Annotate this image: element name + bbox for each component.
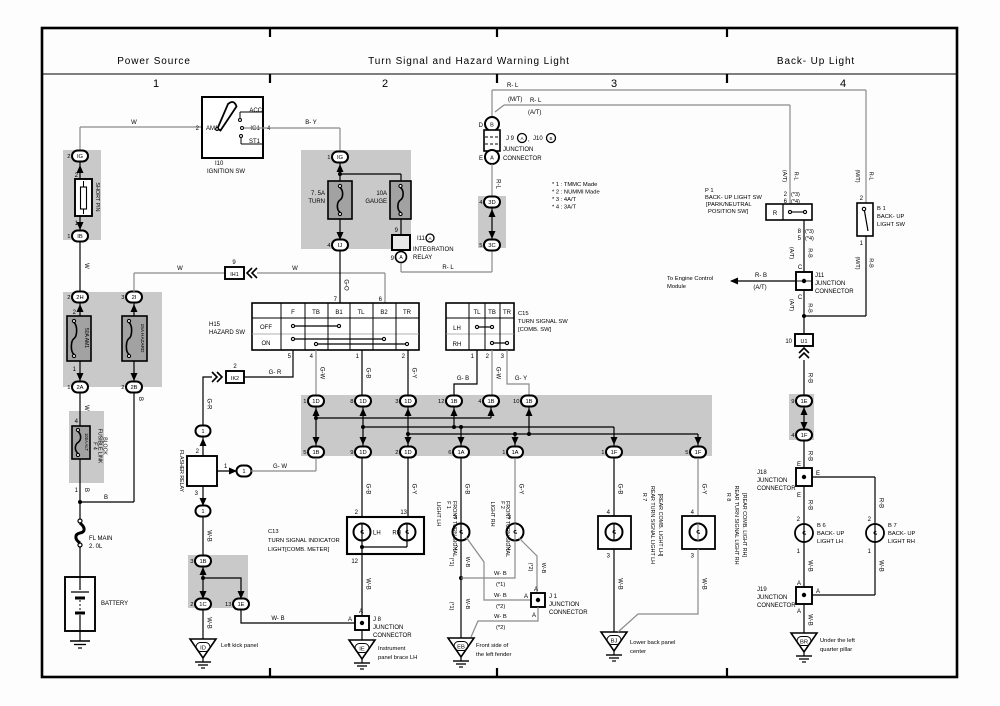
svg-text:[PARK/NEUTRAL: [PARK/NEUTRAL [706,202,752,208]
svg-text:B 6: B 6 [817,523,826,529]
svg-text:R-B: R-B [807,500,813,510]
svg-text:ID: ID [200,646,206,652]
svg-text:* 4 : 3A/T: * 4 : 3A/T [552,205,577,211]
svg-text:* 2 : NUMMI Made: * 2 : NUMMI Made [552,190,600,196]
svg-text:Back- Up Light: Back- Up Light [777,56,855,67]
svg-text:TURN SIGNAL SW: TURN SIGNAL SW [518,319,568,325]
svg-text:IB: IB [77,234,83,240]
svg-text:IG1: IG1 [250,126,260,132]
svg-text:R-L: R-L [495,179,501,189]
svg-text:RH: RH [392,531,401,537]
svg-text:1F: 1F [695,450,702,456]
svg-text:quarter pillar: quarter pillar [820,647,852,653]
svg-text:J10: J10 [533,136,543,142]
svg-text:R 7: R 7 [641,493,647,501]
svg-text:FL MAIN: FL MAIN [89,536,112,542]
svg-text:A: A [359,609,363,615]
svg-text:FLASHER RELAY: FLASHER RELAY [178,450,184,493]
svg-text:G-B: G-B [464,484,470,495]
svg-text:2. 0L: 2. 0L [89,544,103,550]
svg-text:12: 12 [438,399,444,405]
svg-text:(A/T): (A/T) [753,285,766,291]
svg-text:REAR TURN SIGNAL LIGHT LH: REAR TURN SIGNAL LIGHT LH [649,486,655,564]
svg-text:3: 3 [121,295,124,301]
svg-text:E: E [797,493,801,499]
svg-text:J18: J18 [757,470,767,476]
svg-text:(A/T): (A/T) [788,247,794,259]
svg-text:(*1): (*1) [448,558,454,567]
svg-text:(A/T): (A/T) [788,299,794,311]
svg-text:5: 5 [303,450,306,456]
svg-text:JUNCTION: JUNCTION [549,602,579,608]
svg-text:R-L: R-L [793,172,799,181]
svg-text:(A/T): (A/T) [781,170,787,182]
svg-text:W- B: W- B [494,571,507,577]
svg-text:13: 13 [225,602,231,608]
svg-text:100A ALT: 100A ALT [84,433,89,451]
svg-text:(*2): (*2) [527,563,533,572]
svg-text:IG: IG [77,154,84,160]
svg-text:2H: 2H [76,295,83,301]
svg-text:7. 5A: 7. 5A [311,191,325,197]
svg-text:(*3): (*3) [791,192,800,198]
svg-text:W-B: W-B [365,578,371,590]
svg-text:9: 9 [350,450,353,456]
svg-text:TR: TR [503,310,512,316]
svg-text:BACK- UP LIGHT SW: BACK- UP LIGHT SW [705,195,762,201]
svg-text:1D: 1D [359,450,366,456]
svg-text:BJ: BJ [611,639,618,645]
svg-text:13: 13 [400,510,407,516]
svg-text:A: A [524,594,528,600]
svg-text:G-Y: G-Y [701,484,707,495]
svg-text:(*2): (*2) [496,625,505,631]
svg-text:W: W [131,120,137,126]
svg-text:B: B [137,397,143,401]
svg-text:2: 2 [67,154,70,160]
svg-text:J 9: J 9 [506,136,515,142]
svg-text:POSITION SW]: POSITION SW] [708,209,749,215]
svg-text:1B: 1B [487,399,494,405]
svg-text:TR: TR [403,310,412,316]
svg-text:5: 5 [479,243,482,249]
svg-text:Module: Module [667,284,686,290]
svg-text:CONNECTOR: CONNECTOR [503,156,542,162]
svg-text:INTEGRATION: INTEGRATION [413,247,454,253]
svg-text:RH: RH [453,342,462,348]
svg-text:2B: 2B [130,385,137,391]
svg-text:10: 10 [785,339,792,345]
svg-text:1D: 1D [359,399,366,405]
svg-text:3D: 3D [488,200,495,206]
svg-text:B: B [549,136,552,141]
svg-text:10: 10 [513,399,519,405]
svg-text:2: 2 [190,602,193,608]
svg-text:IJ: IJ [338,243,343,249]
svg-text:B2: B2 [380,310,388,316]
svg-text:12: 12 [351,559,358,565]
svg-text:R-B: R-B [807,303,813,313]
svg-text:1: 1 [502,450,505,456]
svg-text:TL: TL [473,310,481,316]
svg-text:R-L: R-L [868,172,874,181]
svg-text:panel brace LH: panel brace LH [378,655,417,661]
svg-text:R-B: R-B [868,258,874,268]
svg-text:R-B: R-B [807,373,813,383]
svg-text:R-B: R-B [878,498,884,508]
svg-text:G- Y: G- Y [515,376,527,382]
svg-text:G-O: G-O [343,279,349,291]
svg-text:LIGHT SW: LIGHT SW [877,222,905,228]
svg-text:1F: 1F [611,450,618,456]
svg-text:LIGHT RH: LIGHT RH [489,501,495,526]
svg-text:1D: 1D [404,450,411,456]
svg-text:2: 2 [382,78,388,90]
svg-text:B1: B1 [335,310,343,316]
svg-text:(M/T): (M/T) [854,256,860,269]
svg-text:1: 1 [303,399,306,405]
svg-text:(*1): (*1) [496,582,505,588]
svg-text:BACK- UP: BACK- UP [888,531,916,537]
svg-text:G- W: G- W [273,464,287,470]
svg-text:15A HAZARD: 15A HAZARD [140,324,145,353]
svg-text:R- L: R- L [442,265,454,271]
svg-text:Turn Signal and Hazard Warning: Turn Signal and Hazard Warning Light [368,56,570,67]
svg-text:2A: 2A [76,385,83,391]
svg-text:3: 3 [395,399,398,405]
svg-text:BATTERY: BATTERY [101,601,128,607]
svg-text:W-B: W-B [617,578,623,590]
svg-text:W-B: W-B [701,578,707,590]
svg-text:IGNITION SW: IGNITION SW [207,169,245,175]
svg-text:W: W [177,266,183,272]
svg-text:Left kick panel: Left kick panel [221,643,258,649]
svg-text:1A: 1A [511,450,518,456]
svg-text:1: 1 [601,450,604,456]
svg-text:A: A [490,156,494,162]
svg-text:J 1: J 1 [549,594,558,600]
svg-text:G-Y: G-Y [411,368,417,379]
svg-text:CONNECTOR: CONNECTOR [373,633,412,639]
svg-text:IK2: IK2 [231,376,239,382]
svg-text:ON: ON [262,341,271,347]
svg-text:LIGHT RH: LIGHT RH [888,539,915,545]
svg-text:JUNCTION: JUNCTION [815,281,845,287]
svg-text:REAR TURN SIGNAL LIGHT RH: REAR TURN SIGNAL LIGHT RH [733,486,739,565]
svg-text:1A: 1A [457,450,464,456]
svg-text:1: 1 [153,78,159,90]
svg-text:(M/T): (M/T) [508,97,522,103]
svg-text:I11: I11 [417,236,426,242]
svg-text:G- B: G- B [457,376,469,382]
svg-text:W-B: W-B [464,557,470,568]
svg-text:R- L: R- L [507,83,519,89]
svg-text:SHORT PIN: SHORT PIN [94,182,100,211]
svg-text:6: 6 [448,450,451,456]
svg-text:* 1 : TMMC Made: * 1 : TMMC Made [552,182,597,188]
svg-text:1: 1 [67,234,70,240]
svg-text:10A: 10A [376,191,387,197]
svg-text:LIGHT[COMB. METER]: LIGHT[COMB. METER] [268,547,330,553]
svg-text:IG: IG [337,155,344,161]
svg-text:JUNCTION: JUNCTION [757,595,787,601]
svg-text:W- B: W- B [494,614,507,620]
svg-text:A: A [816,589,820,595]
svg-text:(*3): (*3) [805,229,814,235]
svg-text:* 3 : 4A/T: * 3 : 4A/T [552,197,577,203]
svg-text:5: 5 [685,450,688,456]
svg-text:2I: 2I [132,295,137,301]
svg-text:E: E [816,471,820,477]
svg-text:1: 1 [201,429,204,435]
svg-text:OFF: OFF [260,325,272,331]
svg-text:E: E [479,156,483,162]
svg-text:TURN: TURN [308,199,325,205]
svg-text:W-B: W-B [878,560,884,572]
svg-text:9: 9 [791,399,794,405]
svg-text:BACK- UP: BACK- UP [877,214,905,220]
svg-text:W: W [83,405,89,411]
svg-text:IH1: IH1 [230,272,238,278]
svg-text:F 1: F 1 [445,501,451,509]
svg-text:BACK- UP: BACK- UP [817,531,845,537]
svg-text:R- L: R- L [530,98,542,104]
svg-text:1B: 1B [312,450,319,456]
svg-text:EB: EB [457,645,465,651]
svg-text:3: 3 [611,78,617,90]
svg-text:CONNECTOR: CONNECTOR [757,603,796,609]
svg-text:[REAR COMB. LIGHT LH]: [REAR COMB. LIGHT LH] [657,494,663,557]
svg-text:3C: 3C [488,243,495,249]
svg-text:B 1: B 1 [877,206,886,212]
svg-text:R: R [773,211,778,217]
svg-text:G-R: G-R [206,399,212,411]
svg-text:Power Source: Power Source [117,56,191,67]
svg-text:1B: 1B [525,399,532,405]
svg-text:50A AM1: 50A AM1 [83,328,89,348]
svg-text:R-B: R-B [807,248,813,258]
svg-text:D: D [479,123,484,129]
svg-text:IE: IE [359,647,365,653]
svg-text:(*4): (*4) [805,236,814,242]
svg-text:1D: 1D [404,399,411,405]
svg-text:A: A [532,613,536,619]
svg-text:JUNCTION: JUNCTION [373,625,403,631]
svg-text:W-B: W-B [540,563,546,574]
svg-text:1: 1 [242,469,245,475]
svg-text:C: C [798,295,803,301]
svg-text:CONNECTOR: CONNECTOR [815,289,854,295]
svg-text:Instrument: Instrument [378,646,406,652]
svg-text:FRONT TURN SIGNAL: FRONT TURN SIGNAL [504,501,510,557]
svg-text:(*2): (*2) [496,604,505,610]
svg-text:1E: 1E [800,399,807,405]
svg-text:W: W [292,266,298,272]
svg-text:G-B: G-B [365,368,371,379]
svg-text:1D: 1D [312,399,319,405]
svg-text:1: 1 [201,509,204,515]
svg-text:(*1): (*1) [448,602,454,611]
svg-text:1: 1 [67,385,70,391]
svg-text:TB: TB [312,310,320,316]
svg-text:2: 2 [67,295,70,301]
svg-text:To Engine Control: To Engine Control [667,276,713,282]
svg-text:W- B: W- B [494,593,507,599]
svg-text:G- R: G- R [269,370,282,376]
svg-text:J 8: J 8 [373,617,382,623]
svg-text:P 1: P 1 [705,188,714,194]
svg-text:LIGHT LH: LIGHT LH [817,539,843,545]
svg-text:TB: TB [488,310,496,316]
svg-text:2: 2 [395,450,398,456]
svg-text:Front side of: Front side of [476,643,509,649]
svg-text:J11: J11 [815,273,825,279]
svg-text:U1: U1 [801,339,808,345]
svg-text:F: F [291,310,295,316]
svg-text:B: B [490,123,494,129]
svg-text:1C: 1C [199,602,206,608]
svg-text:BLOCK: BLOCK [102,437,108,455]
svg-text:G-B: G-B [365,484,371,495]
svg-text:Lower back panel: Lower back panel [630,640,675,646]
svg-text:GAUGE: GAUGE [365,199,387,205]
svg-text:2: 2 [121,385,124,391]
svg-text:W-B: W-B [807,560,813,572]
svg-text:J19: J19 [757,587,767,593]
svg-text:HAZARD SW: HAZARD SW [209,330,245,336]
svg-text:TL: TL [357,310,365,316]
svg-text:LIGHT LH: LIGHT LH [435,502,441,526]
svg-text:H15: H15 [209,322,221,328]
svg-text:C: C [798,265,803,271]
svg-text:G-Y: G-Y [518,484,524,495]
svg-text:W-B: W-B [206,617,212,629]
svg-text:B- Y: B- Y [305,120,317,126]
svg-text:G-W: G-W [495,367,501,380]
svg-text:G-W: G-W [319,367,325,380]
svg-text:Under the left: Under the left [820,638,855,644]
svg-text:R- B: R- B [755,273,767,279]
svg-text:G-Y: G-Y [411,484,417,495]
svg-text:A: A [797,609,801,615]
svg-text:B: B [83,488,89,492]
svg-text:B 7: B 7 [888,523,897,529]
svg-text:LH: LH [373,531,381,537]
svg-text:1: 1 [327,155,330,161]
svg-text:1B: 1B [199,559,206,565]
svg-text:the left fender: the left fender [476,652,512,658]
svg-text:ACC: ACC [249,108,262,114]
svg-text:JUNCTION: JUNCTION [757,478,787,484]
svg-text:1E: 1E [237,602,244,608]
svg-text:W: W [83,263,89,269]
svg-text:W-B: W-B [464,599,470,610]
svg-text:1B: 1B [450,399,457,405]
svg-text:R-B: R-B [807,451,813,461]
svg-text:W-B: W-B [206,530,212,542]
svg-text:B: B [104,495,108,501]
svg-text:CONNECTOR: CONNECTOR [549,610,588,616]
svg-text:center: center [630,649,646,655]
svg-text:G-B: G-B [617,484,623,495]
svg-text:I10: I10 [215,161,224,167]
svg-text:(M/T): (M/T) [854,169,860,182]
svg-text:(A/T): (A/T) [528,110,541,116]
svg-text:1F: 1F [801,433,808,439]
svg-text:LH: LH [453,326,461,332]
svg-text:TURN SIGNAL INDICATOR: TURN SIGNAL INDICATOR [268,538,340,544]
svg-text:[COMB. SW]: [COMB. SW] [518,327,552,333]
svg-text:C13: C13 [268,529,279,535]
svg-text:CONNECTOR: CONNECTOR [757,486,796,492]
svg-text:A: A [520,136,523,141]
svg-text:[REAR COMB. LIGHT RH]: [REAR COMB. LIGHT RH] [741,493,747,557]
svg-text:BR: BR [800,640,808,646]
svg-text:A: A [428,236,431,241]
svg-text:R 8: R 8 [725,493,731,501]
svg-text:FRONT TURN SIGNAL: FRONT TURN SIGNAL [451,501,457,557]
svg-text:4: 4 [840,78,846,90]
svg-text:RELAY: RELAY [413,255,432,261]
svg-text:W-B: W-B [807,614,813,626]
svg-text:8: 8 [350,399,353,405]
svg-text:A: A [348,617,352,623]
svg-text:3: 3 [190,559,193,565]
svg-text:W- B: W- B [271,616,284,622]
svg-text:C15: C15 [518,311,529,317]
svg-text:JUNCTION: JUNCTION [503,147,533,153]
